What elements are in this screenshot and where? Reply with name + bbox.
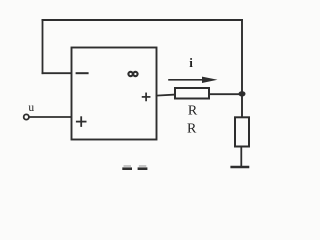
ground [232,166,248,169]
op-amp gain label (infinity) [128,72,137,76]
terminal u (input, open circle) [24,114,29,119]
wire: op-amp output to resistor R [157,95,175,96]
wire: feedback into inverting input [43,72,72,74]
value label R (vertical resistor) [187,122,197,137]
op-amp inverting input marker (-) [77,72,88,74]
wire: resistor R to node [209,93,242,95]
wire: node down to vertical resistor [241,94,243,117]
wire: vertical resistor to ground [240,147,242,167]
label i (current) [189,55,193,70]
svg-text:R: R [188,103,198,118]
wire: feedback left vertical [42,20,44,73]
resistor R (vertical, body) [235,117,249,146]
current arrow i [169,77,218,83]
wire: input u to non-inverting input [29,116,71,118]
op-amp output polarity marker (+) [143,93,150,100]
caption text (cropped at bottom edge) [122,165,147,170]
svg-text:u: u [28,102,34,114]
svg-text:R: R [187,122,197,137]
wire: right vertical (node column, top) [241,20,243,94]
node: output junction dot [239,91,246,96]
wire: feedback top horizontal [43,19,243,21]
op-amp U1 (ideal, box symbol) [72,48,157,140]
value label R (horizontal resistor) [188,103,198,118]
resistor R (horizontal, body) [175,88,209,99]
svg-text:i: i [189,55,193,70]
label u (input voltage) [28,102,34,114]
op-amp non-inverting input marker (+) [77,117,86,126]
